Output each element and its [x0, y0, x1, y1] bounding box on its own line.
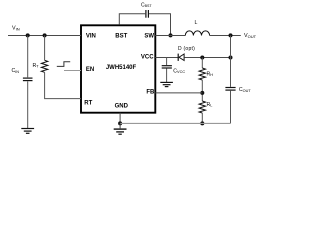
wire VIN rail	[8, 35, 81, 37]
junction FB	[200, 91, 204, 95]
svg-text:D (opt): D (opt)	[178, 46, 195, 52]
wire COUT branch upper	[230, 36, 232, 87]
diode D (opt)	[178, 54, 184, 61]
label L	[195, 20, 198, 26]
svg-text:GND: GND	[115, 103, 129, 109]
ground below CVCC	[160, 82, 173, 86]
svg-text:RT: RT	[84, 100, 92, 106]
wire RH to FB node	[201, 80, 203, 101]
svg-text:EN: EN	[86, 67, 94, 73]
svg-text:CVCC: CVCC	[173, 68, 185, 74]
pin label GND	[115, 103, 129, 109]
label RT	[33, 63, 40, 69]
wire diode to output divider	[184, 57, 230, 59]
node VIN label	[12, 26, 20, 32]
pin label EN	[86, 67, 94, 73]
junction BST/SW	[169, 33, 173, 37]
wire EN to EN pin	[64, 70, 81, 72]
label COUT	[239, 87, 251, 93]
junction COUT on output rail	[229, 33, 233, 37]
pin label VCC	[141, 54, 154, 60]
wire RT to RT pin	[45, 72, 81, 98]
wire GND junction to ground symbol	[119, 123, 121, 128]
wire CIN branch lower	[27, 81, 29, 128]
wire CIN branch upper	[27, 36, 29, 78]
junction VCC wire to COUT branch	[229, 56, 233, 60]
junction RL bottom	[200, 121, 204, 125]
label RH	[207, 71, 214, 77]
svg-text:SW: SW	[144, 34, 154, 40]
svg-text:FB: FB	[146, 89, 155, 95]
svg-text:RT: RT	[33, 63, 40, 69]
junction CIN on VIN rail	[26, 33, 30, 37]
capacitor C_VCC	[162, 66, 172, 68]
label CVCC	[173, 68, 185, 74]
svg-text:BST: BST	[115, 34, 127, 40]
resistor RL	[199, 101, 205, 113]
svg-text:VIN: VIN	[86, 34, 96, 40]
svg-text:JWH5140F: JWH5140F	[106, 65, 137, 71]
svg-text:L: L	[195, 20, 198, 26]
pin label BST	[115, 34, 127, 40]
wire VCC pin to diode	[155, 57, 178, 59]
node VOUT label	[244, 33, 257, 39]
wire COUT branch lower	[230, 91, 232, 124]
pin label FB	[146, 89, 155, 95]
IC U1 JWH5140F body	[81, 25, 155, 112]
svg-text:VIN: VIN	[12, 26, 20, 32]
inductor L	[185, 31, 209, 36]
label D (opt)	[178, 46, 195, 52]
wire SW to inductor	[155, 35, 185, 37]
junction GND	[118, 121, 122, 125]
svg-text:RH: RH	[207, 71, 214, 77]
junction RT on VIN rail	[43, 33, 47, 37]
EN step waveform symbol	[57, 62, 70, 67]
wire GND pin drop	[119, 113, 121, 124]
label RL	[207, 102, 213, 108]
resistor RH	[199, 68, 205, 80]
pin label SW	[144, 34, 154, 40]
wire CVCC to ground	[166, 69, 168, 83]
wire divider top segment	[201, 58, 203, 69]
IC part number JWH5140F	[106, 65, 137, 71]
capacitor C_BST	[146, 10, 149, 18]
svg-text:COUT: COUT	[239, 87, 251, 93]
capacitor C_IN	[23, 78, 33, 81]
ground below CIN	[21, 129, 34, 134]
svg-text:RL: RL	[207, 102, 213, 108]
svg-text:CIN: CIN	[12, 68, 20, 74]
wire FB pin to divider	[155, 92, 202, 94]
ground below GND pin	[114, 129, 127, 134]
wire RT branch from rail	[44, 36, 46, 61]
wire BST trace up and over	[119, 14, 170, 36]
svg-text:VCC: VCC	[141, 54, 154, 60]
pin label RT	[84, 100, 92, 106]
capacitor C_OUT	[225, 88, 235, 91]
wire RL to bottom rail	[201, 113, 203, 123]
pin label VIN	[86, 34, 96, 40]
junction divider top	[200, 56, 204, 60]
svg-text:CBST: CBST	[141, 2, 152, 8]
wire bottom ground rail	[120, 122, 230, 124]
resistor RT	[41, 60, 47, 72]
label CBST	[141, 2, 152, 8]
label CIN	[12, 68, 20, 74]
svg-text:VOUT: VOUT	[244, 33, 257, 39]
wire inductor to VOUT	[210, 35, 241, 37]
wire CVCC stub	[166, 58, 168, 66]
